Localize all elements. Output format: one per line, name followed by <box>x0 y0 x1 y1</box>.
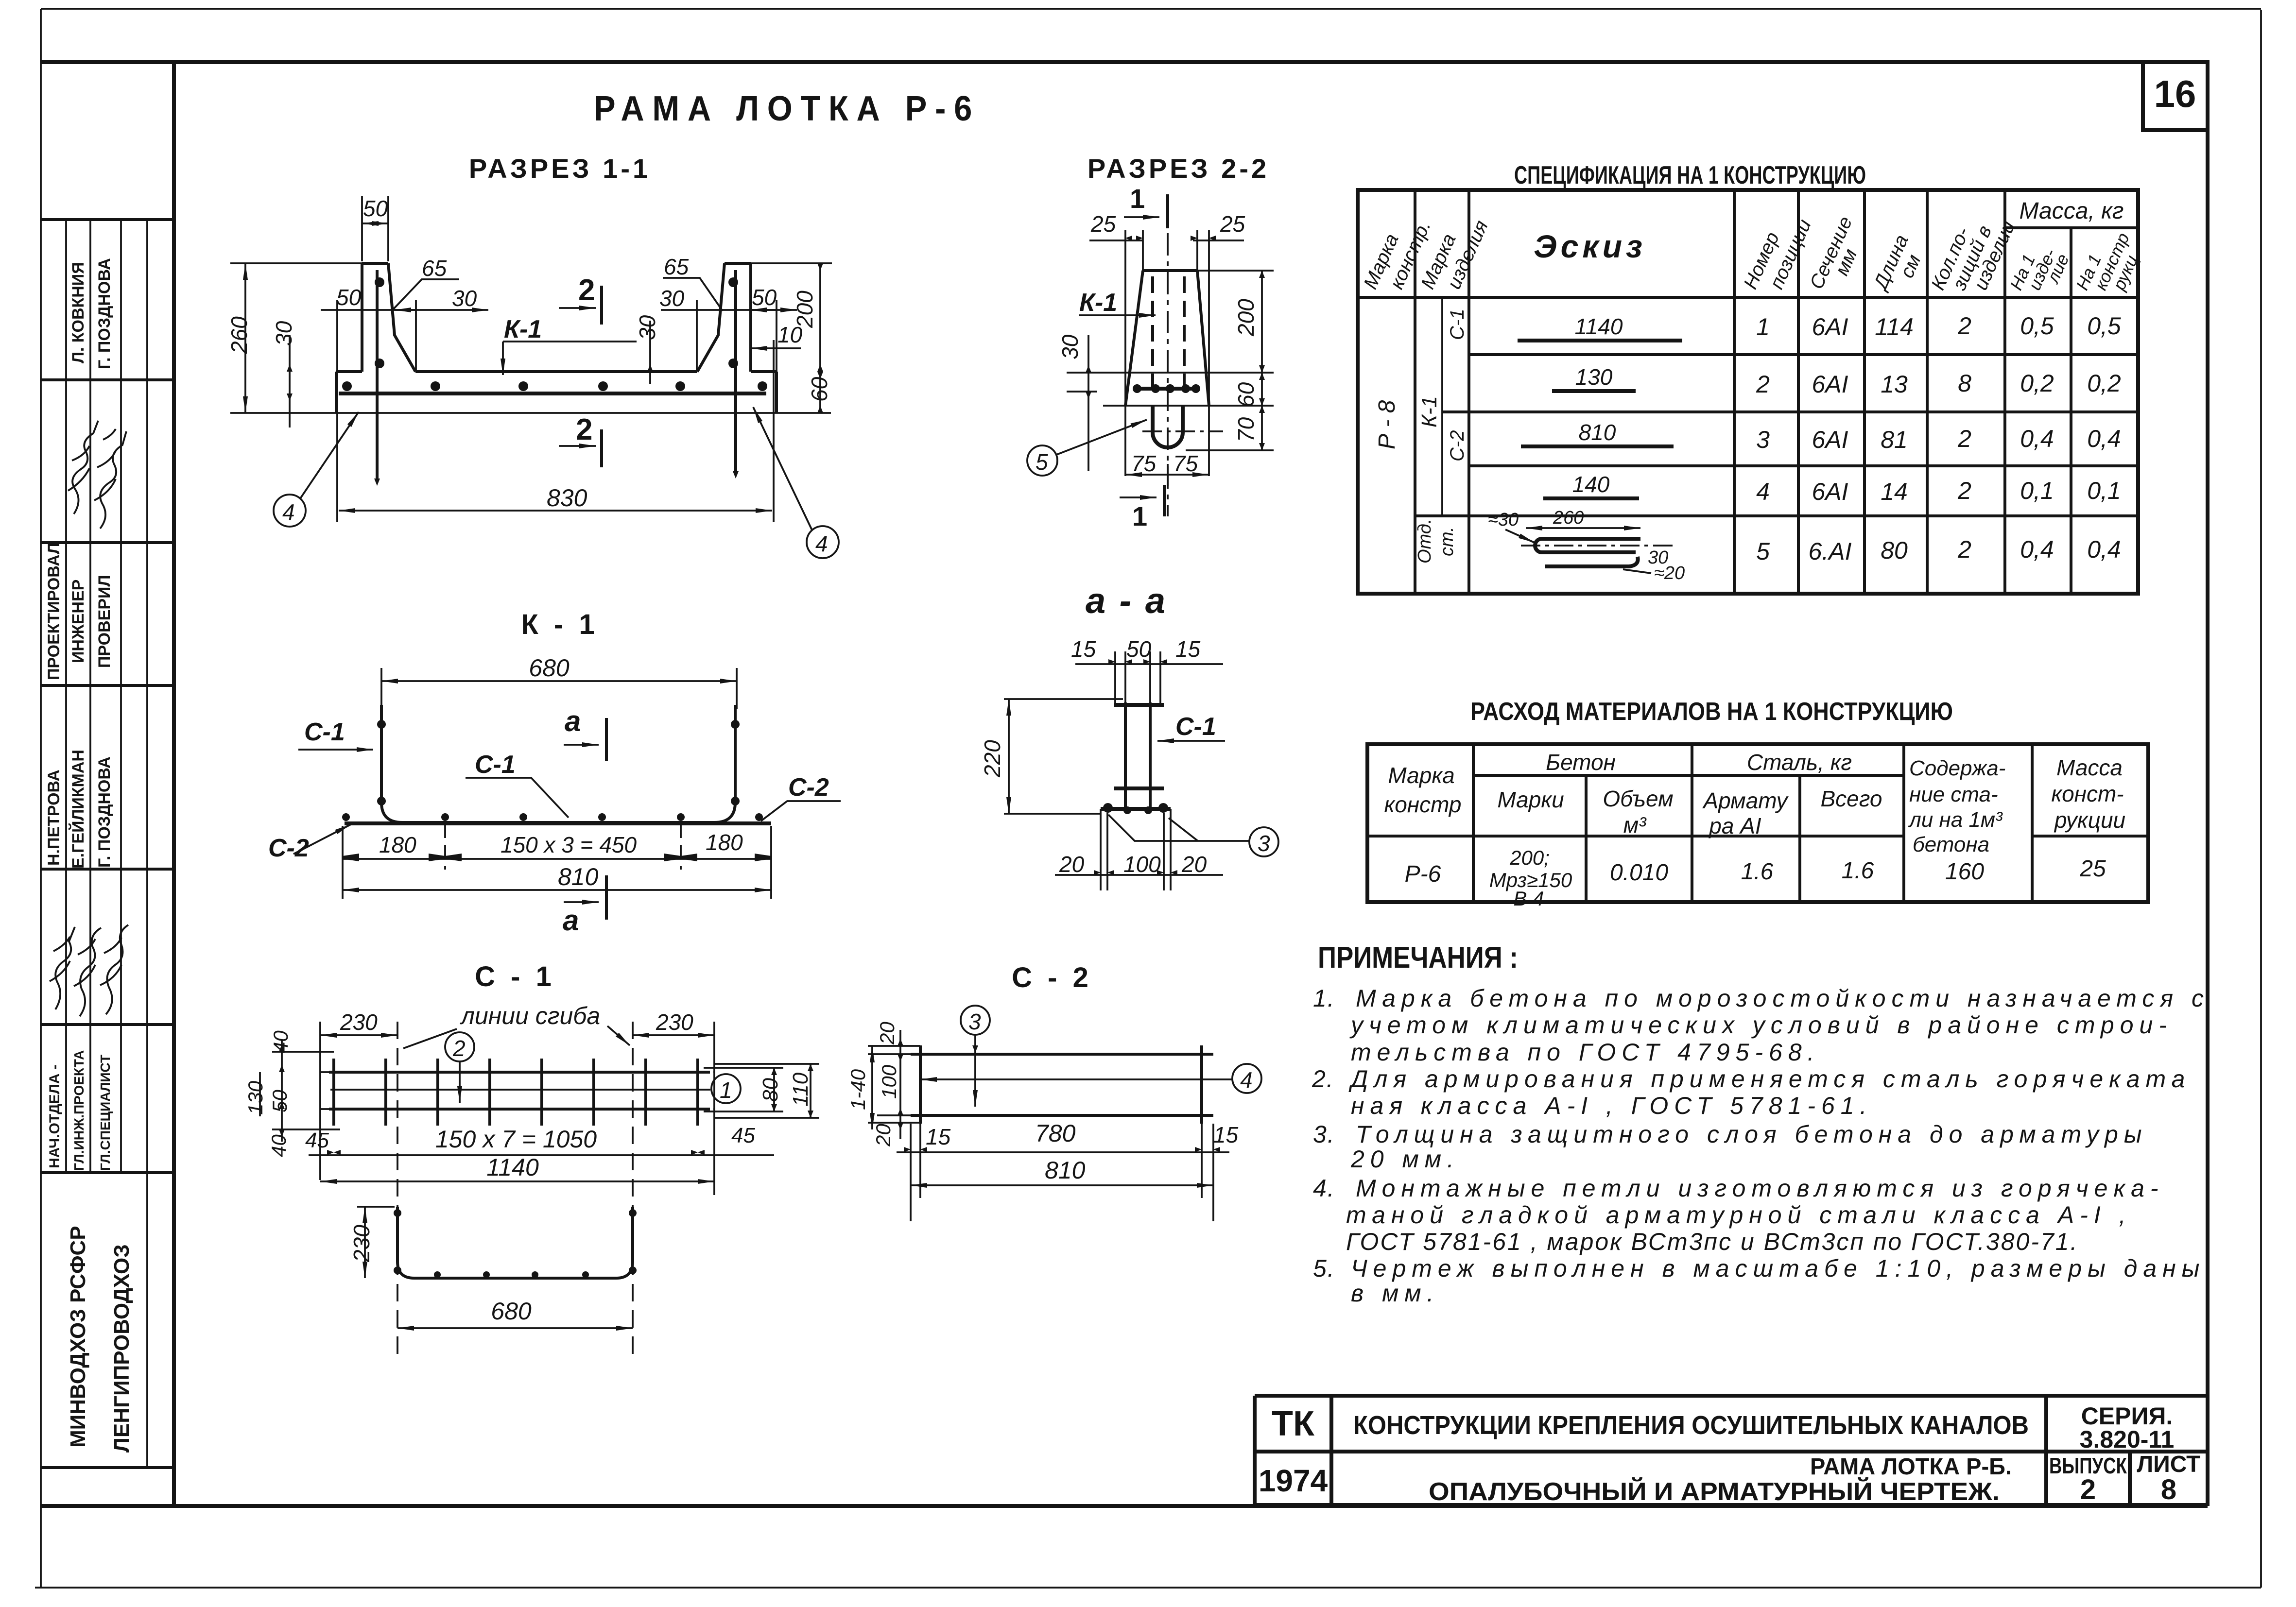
svg-text:80: 80 <box>759 1078 782 1102</box>
svg-text:70: 70 <box>1233 417 1259 442</box>
svg-text:а: а <box>563 904 579 937</box>
K-1 section mark a upper <box>564 705 606 761</box>
svg-text:1: 1 <box>720 1077 732 1103</box>
section 2-2 cut mark 1 bottom <box>1120 485 1164 531</box>
svg-text:15: 15 <box>926 1124 951 1149</box>
svg-text:0,2: 0,2 <box>2020 370 2054 397</box>
svg-text:25: 25 <box>1220 211 1245 237</box>
specification data rows <box>1756 312 2121 565</box>
svg-text:в мм.: в мм. <box>1351 1280 1439 1307</box>
svg-text:30: 30 <box>659 286 685 311</box>
svg-text:РАЗРЕЗ 2-2: РАЗРЕЗ 2-2 <box>1088 153 1269 184</box>
svg-text:15: 15 <box>1213 1122 1239 1147</box>
svg-text:ГОСТ 5781-61 , марок ВСт3пс и: ГОСТ 5781-61 , марок ВСт3пс и ВСт3сп по … <box>1346 1228 2079 1255</box>
svg-text:25: 25 <box>1090 211 1116 237</box>
svg-text:С - 1: С - 1 <box>475 961 555 992</box>
section 2-2 mesh bar with dots <box>1133 384 1200 393</box>
C-2 callout circle 3 <box>961 1006 990 1107</box>
svg-text:ли на 1м³: ли на 1м³ <box>1908 808 2003 832</box>
svg-text:14: 14 <box>1881 478 1908 505</box>
svg-text:15: 15 <box>1175 636 1201 662</box>
svg-text:1: 1 <box>1130 183 1145 214</box>
svg-text:110: 110 <box>789 1072 812 1107</box>
svg-text:Р-6: Р-6 <box>1405 861 1441 887</box>
svg-text:РАЗРЕЗ 1-1: РАЗРЕЗ 1-1 <box>469 153 651 184</box>
section 2-2 dims 25 25 <box>1089 211 1245 476</box>
svg-text:81: 81 <box>1881 426 1908 453</box>
specification header texts <box>1360 198 2144 294</box>
svg-text:Объем: Объем <box>1603 786 1673 811</box>
section 2-2 K-1 label <box>1079 289 1156 317</box>
svg-text:780: 780 <box>1035 1120 1076 1147</box>
notes text <box>1312 985 2210 1307</box>
svg-text:75: 75 <box>1131 451 1157 476</box>
svg-text:6АI: 6АI <box>1812 371 1848 398</box>
svg-text:15: 15 <box>1071 636 1096 662</box>
svg-text:РАМА ЛОТКА Р-6: РАМА ЛОТКА Р-6 <box>594 89 980 128</box>
section 1-1 mesh cross-bar dots <box>342 277 767 391</box>
C-2 left dims 20 100 20 140 <box>846 1022 920 1147</box>
svg-text:ПРИМЕЧАНИЯ :: ПРИМЕЧАНИЯ : <box>1318 941 1518 974</box>
svg-text:Л. КОВКНИЯ: Л. КОВКНИЯ <box>69 262 87 363</box>
svg-text:ЛЕНГИПРОВОДХОЗ: ЛЕНГИПРОВОДХОЗ <box>110 1244 134 1453</box>
svg-text:К - 1: К - 1 <box>521 609 598 640</box>
section 2-2 cut mark 1 top <box>1124 183 1168 228</box>
svg-text:40: 40 <box>267 1134 290 1157</box>
svg-text:6АI: 6АI <box>1812 313 1848 341</box>
svg-text:20: 20 <box>876 1022 898 1045</box>
C-2 mesh <box>911 1045 1232 1124</box>
svg-text:СПЕЦИФИКАЦИЯ НА 1 КОНСТРУКЦИЮ: СПЕЦИФИКАЦИЯ НА 1 КОНСТРУКЦИЮ <box>1514 161 1866 189</box>
svg-text:К-1: К-1 <box>1417 396 1441 427</box>
svg-text:ние ста-: ние ста- <box>1909 783 1998 806</box>
section 2-2 dims 75 75 <box>1125 451 1209 486</box>
svg-text:тельства по ГОСТ 4795-68.: тельства по ГОСТ 4795-68. <box>1351 1039 1820 1066</box>
svg-text:3.820-11: 3.820-11 <box>2080 1426 2175 1453</box>
svg-text:810: 810 <box>1045 1157 1086 1184</box>
K-1 dim 810 <box>343 863 771 890</box>
svg-text:Сталь, кг: Сталь, кг <box>1747 750 1852 775</box>
svg-text:30: 30 <box>452 286 477 311</box>
section 2-2 dim 30 left <box>1057 334 1097 471</box>
K-1 label C-2 far left <box>268 824 351 862</box>
svg-text:Масса, кг: Масса, кг <box>2020 198 2124 224</box>
materials table header texts <box>1384 750 2125 838</box>
svg-text:МИНВОДХОЗ РСФСР: МИНВОДХОЗ РСФСР <box>66 1226 90 1448</box>
C-1 callout circle 1 <box>711 1074 741 1103</box>
svg-text:ГЛ.ИНЖ.ПРОЕКТА: ГЛ.ИНЖ.ПРОЕКТА <box>71 1050 86 1171</box>
C-1 fold dashed lines <box>397 1022 633 1355</box>
svg-text:5: 5 <box>1036 449 1048 475</box>
svg-text:Н.ПЕТРОВА: Н.ПЕТРОВА <box>45 769 63 866</box>
svg-text:0,1: 0,1 <box>2020 477 2054 504</box>
svg-text:230: 230 <box>349 1225 374 1263</box>
svg-text:30: 30 <box>635 315 660 340</box>
svg-text:ст.: ст. <box>1437 527 1457 556</box>
callout circle 4 left <box>274 412 359 527</box>
svg-text:114: 114 <box>1875 313 1914 341</box>
svg-text:3: 3 <box>968 1009 981 1034</box>
svg-text:ра АI: ра АI <box>1708 813 1761 838</box>
svg-text:НАЧ.ОТДЕЛА -: НАЧ.ОТДЕЛА - <box>47 1064 63 1168</box>
specification row labels left <box>1374 309 1468 564</box>
svg-text:50: 50 <box>363 196 388 221</box>
svg-text:4: 4 <box>1756 478 1770 505</box>
svg-text:линии сгиба: линии сгиба <box>460 1002 600 1029</box>
C-1 right dims 80 110 140 <box>704 1064 819 1118</box>
svg-text:65: 65 <box>422 256 447 281</box>
svg-text:200: 200 <box>792 291 817 328</box>
svg-text:0.010: 0.010 <box>1610 860 1668 886</box>
stamp names L.Kovkina / G.Pozdnova <box>69 258 114 369</box>
svg-text:Чертеж выполнен в масштабе 1:1: Чертеж выполнен в масштабе 1:10, размеры… <box>1351 1255 2205 1282</box>
svg-text:4: 4 <box>1240 1067 1253 1093</box>
svg-text:810: 810 <box>1579 420 1616 445</box>
specification sketches rows 1-4 <box>1518 314 1682 498</box>
svg-text:0,2: 0,2 <box>2087 370 2121 397</box>
C-1 callout circle 2 <box>445 1032 474 1103</box>
svg-text:1.: 1. <box>1313 985 1335 1012</box>
stamp names N.Petrova / E.Geylikman / G.Pozdnova <box>45 750 114 869</box>
svg-text:Эскиз: Эскиз <box>1534 228 1646 264</box>
svg-text:учетом климатических условий в: учетом климатических условий в районе ст… <box>1349 1011 2173 1039</box>
svg-text:2: 2 <box>1756 371 1770 398</box>
svg-text:Содержа-: Содержа- <box>1909 756 2005 780</box>
svg-text:Марка: Марка <box>1388 763 1454 788</box>
svg-text:ТК: ТК <box>1272 1404 1315 1443</box>
section 2-2 slab lines <box>1067 373 1274 406</box>
svg-text:2: 2 <box>578 274 595 307</box>
svg-text:м³: м³ <box>1623 812 1647 838</box>
svg-text:220: 220 <box>980 740 1005 778</box>
svg-text:200;: 200; <box>1509 846 1550 869</box>
svg-text:ГЛ.СПЕЦИАЛИСТ: ГЛ.СПЕЦИАЛИСТ <box>98 1055 113 1171</box>
svg-text:а: а <box>565 705 581 737</box>
section 2-2 right dim column 200 60 70 <box>1186 271 1274 450</box>
svg-text:100: 100 <box>1123 852 1161 877</box>
svg-text:20: 20 <box>1181 852 1207 877</box>
svg-text:60: 60 <box>807 376 832 402</box>
svg-text:С-2: С-2 <box>788 773 829 802</box>
svg-text:5: 5 <box>1756 538 1770 565</box>
section 2-2 callout circle 5 <box>1027 420 1147 476</box>
svg-text:130: 130 <box>1575 364 1613 390</box>
svg-text:20 мм.: 20 мм. <box>1350 1145 1460 1173</box>
C-1 bend dim 230 <box>349 1207 395 1278</box>
C-1 bend dim 680 <box>397 1298 633 1328</box>
svg-text:Марки: Марки <box>1497 787 1564 812</box>
svg-text:40: 40 <box>269 1030 292 1053</box>
svg-text:Е.ГЕЙЛИКМАН: Е.ГЕЙЛИКМАН <box>69 750 87 869</box>
section 1-1 channel outline <box>230 263 831 413</box>
svg-text:680: 680 <box>491 1298 532 1325</box>
dim 50 right ledge <box>750 285 777 522</box>
materials table grid <box>1367 744 2148 902</box>
C-1 left dims 40 130 50 40 <box>244 1030 340 1157</box>
svg-text:0,4: 0,4 <box>2020 425 2054 452</box>
section 2-2 mounting loop pos 5 <box>1153 406 1183 447</box>
svg-text:КОНСТРУКЦИИ КРЕПЛЕНИЯ ОСУШИТЕЛ: КОНСТРУКЦИИ КРЕПЛЕНИЯ ОСУШИТЕЛЬНЫХ КАНАЛ… <box>1353 1411 2029 1440</box>
svg-text:20: 20 <box>872 1124 895 1147</box>
C-2 dim 810 <box>911 1157 1213 1185</box>
dim 10 right <box>751 322 803 348</box>
svg-text:50: 50 <box>336 285 362 310</box>
svg-text:К-1: К-1 <box>504 315 542 343</box>
svg-text:230: 230 <box>656 1009 693 1035</box>
stamp roles Proektiroval / Inzhener / Proveril <box>45 543 114 680</box>
svg-text:0,4: 0,4 <box>2087 536 2121 563</box>
svg-text:6АI: 6АI <box>1812 426 1848 453</box>
svg-text:С-1: С-1 <box>475 751 516 779</box>
svg-text:45: 45 <box>731 1124 755 1147</box>
svg-text:5.: 5. <box>1313 1255 1335 1282</box>
svg-text:Р - 8: Р - 8 <box>1374 400 1400 449</box>
svg-text:констр: констр <box>1384 792 1461 817</box>
svg-text:150 x 3 = 450: 150 x 3 = 450 <box>501 832 637 857</box>
section 1-1 top reference lines <box>230 262 832 264</box>
svg-text:2: 2 <box>452 1036 466 1061</box>
svg-text:таной гладкой арматурной стали: таной гладкой арматурной стали класса А-… <box>1346 1201 2132 1229</box>
svg-text:810: 810 <box>558 863 599 890</box>
svg-text:ПРОВЕРИЛ: ПРОВЕРИЛ <box>95 575 114 668</box>
svg-text:К-1: К-1 <box>1079 289 1117 317</box>
svg-text:180: 180 <box>706 830 743 855</box>
svg-text:150 x 7 = 1050: 150 x 7 = 1050 <box>435 1126 597 1153</box>
svg-text:230: 230 <box>340 1009 378 1035</box>
svg-text:16: 16 <box>2154 72 2196 115</box>
svg-text:260: 260 <box>1553 508 1584 528</box>
svg-text:≈30: ≈30 <box>1488 510 1519 530</box>
svg-text:80: 80 <box>1881 537 1908 564</box>
svg-text:С-1: С-1 <box>1447 309 1468 340</box>
dim 830 bottom <box>339 484 772 512</box>
svg-text:С-1: С-1 <box>304 718 345 746</box>
K-1 leader label <box>503 315 637 375</box>
svg-text:200: 200 <box>1233 299 1259 337</box>
stamp org Minvodhoz RSFSR / Lengiprovodhoz <box>66 1226 134 1453</box>
a-a pos 3 leader <box>1108 815 1278 856</box>
svg-text:1-40: 1-40 <box>846 1069 869 1110</box>
svg-text:2: 2 <box>1957 477 1971 504</box>
materials table data row <box>1405 846 2106 910</box>
C-2 dims 15 780 15 <box>897 1120 1239 1221</box>
svg-text:С-1: С-1 <box>1175 713 1216 741</box>
svg-text:конст-: конст- <box>2051 781 2123 806</box>
svg-text:Толщина защитного слоя бетона: Толщина защитного слоя бетона до арматур… <box>1356 1121 2148 1148</box>
svg-text:ОПАЛУБОЧНЫЙ И АРМАТУРНЫЙ ЧЕРТЕ: ОПАЛУБОЧНЫЙ И АРМАТУРНЫЙ ЧЕРТЕЖ. <box>1429 1477 2000 1506</box>
svg-text:Бетон: Бетон <box>1546 750 1616 775</box>
svg-text:180: 180 <box>379 832 416 857</box>
svg-text:8: 8 <box>2161 1474 2176 1505</box>
svg-text:Для армирования применяется ст: Для армирования применяется сталь горяче… <box>1348 1065 2191 1093</box>
K-1 label C-1 left <box>298 718 373 750</box>
svg-text:50: 50 <box>1126 636 1152 662</box>
svg-text:1: 1 <box>1132 501 1147 531</box>
C-1 bend view <box>394 1207 637 1278</box>
section 2-2 loop axis dash-dot <box>1142 430 1223 432</box>
svg-text:1974: 1974 <box>1259 1463 1328 1498</box>
svg-text:3: 3 <box>1258 831 1270 856</box>
svg-text:13: 13 <box>1881 371 1908 398</box>
specification table grid <box>1358 190 2138 594</box>
section mark 2 lower <box>559 413 602 467</box>
svg-text:65: 65 <box>664 254 689 279</box>
svg-text:25: 25 <box>2079 856 2106 882</box>
stamp roles Nach.otdela / Gl.inzh.proekta / Gl.specialist <box>47 1050 113 1171</box>
specification sketch row 5 loop <box>1488 508 1685 583</box>
svg-text:6АI: 6АI <box>1812 478 1848 505</box>
svg-text:1: 1 <box>1756 313 1770 341</box>
svg-text:Масса: Масса <box>2056 755 2123 780</box>
section 1-1 wall rebars (pos 2) <box>377 270 736 479</box>
svg-text:60: 60 <box>1233 382 1259 407</box>
sheet title RAMA LOTKA R-6 <box>594 89 980 128</box>
C-2 callout circle 4 <box>1232 1064 1261 1093</box>
K-1 mesh dots <box>342 720 763 821</box>
K-1 section mark a lower <box>563 875 606 937</box>
C-1 flat mesh wires <box>321 1072 714 1109</box>
section 2-2 dashed wall rebars <box>1153 276 1184 389</box>
bottom title block grid <box>1255 1396 2208 1505</box>
dim 30 left inner <box>395 286 477 372</box>
svg-text:8: 8 <box>1958 370 1971 397</box>
svg-text:0,5: 0,5 <box>2020 312 2054 340</box>
svg-text:Г. ПОЗДНОВА: Г. ПОЗДНОВА <box>95 258 114 369</box>
C-1 cross wires <box>334 1059 698 1126</box>
svg-text:1.6: 1.6 <box>1741 859 1774 885</box>
svg-text:ИНЖЕНЕР: ИНЖЕНЕР <box>69 580 87 663</box>
svg-text:0,4: 0,4 <box>2087 425 2121 452</box>
svg-text:Армату: Армату <box>1702 788 1789 813</box>
C-1 dim 230 left <box>320 1009 397 1180</box>
section 2-2 centre axis <box>1167 194 1169 516</box>
C-1 dim 150x7=1050 and 45 45 <box>305 1124 774 1155</box>
left stamp column grid <box>41 220 174 1468</box>
svg-text:130: 130 <box>244 1080 267 1115</box>
svg-text:РАСХОД МАТЕРИАЛОВ НА 1 КОНСТ: РАСХОД МАТЕРИАЛОВ НА 1 КОНСТРУКЦИЮ <box>1470 698 1953 726</box>
svg-text:6.АI: 6.АI <box>1809 538 1852 565</box>
stamp signatures lower <box>50 925 128 1016</box>
a-a dims 15 50 15 <box>1071 636 1223 705</box>
svg-text:0,5: 0,5 <box>2087 312 2121 340</box>
svg-text:В 4: В 4 <box>1513 887 1544 910</box>
svg-text:С-2: С-2 <box>1447 430 1468 462</box>
dim 50 top of left wall <box>362 196 388 261</box>
svg-text:2: 2 <box>576 413 592 446</box>
svg-text:а - а: а - а <box>1086 581 1167 621</box>
C-1 dim 230 right <box>633 1009 714 1195</box>
svg-text:ПРОЕКТИРОВАЛ: ПРОЕКТИРОВАЛ <box>45 543 63 680</box>
svg-text:4: 4 <box>815 531 828 556</box>
svg-text:2.: 2. <box>1312 1065 1334 1093</box>
svg-text:0,1: 0,1 <box>2087 477 2121 504</box>
svg-text:50: 50 <box>268 1090 291 1112</box>
svg-text:830: 830 <box>547 484 587 512</box>
title block texts <box>1259 1402 2201 1506</box>
a-a footing <box>1101 803 1171 890</box>
svg-text:2: 2 <box>2080 1474 2096 1505</box>
svg-text:100: 100 <box>878 1064 900 1099</box>
a-a dims 20 100 20 <box>1055 852 1223 877</box>
svg-text:45: 45 <box>305 1128 329 1152</box>
a-a label C-1 <box>1157 713 1225 741</box>
K-1 label C-1 middle <box>466 751 569 818</box>
K-1 label C-2 right <box>761 773 841 821</box>
stamp signatures upper <box>68 421 126 529</box>
svg-text:50: 50 <box>752 285 777 310</box>
C-1 dim 1140 <box>320 1154 714 1181</box>
svg-text:30: 30 <box>271 321 296 346</box>
callout circle 4 right <box>753 407 839 558</box>
section 2-2 wall trapezoid <box>1125 271 1209 406</box>
a-a column <box>1114 702 1164 809</box>
svg-text:1140: 1140 <box>1575 314 1623 339</box>
dim 65 left leader <box>392 256 459 311</box>
svg-text:рукции: рукции <box>2054 807 2125 833</box>
svg-text:160: 160 <box>1945 859 1984 885</box>
svg-text:Всего: Всего <box>1820 786 1882 811</box>
svg-text:бетона: бетона <box>1913 833 1989 856</box>
svg-text:20: 20 <box>1059 852 1085 877</box>
svg-text:Отд.: Отд. <box>1415 519 1435 564</box>
svg-text:140: 140 <box>1572 472 1610 497</box>
C-1 fold lines label <box>403 1002 630 1048</box>
svg-text:260: 260 <box>226 316 252 354</box>
sheet number box 16 <box>2143 62 2208 130</box>
a-a dim 220 <box>980 699 1123 814</box>
svg-text:3: 3 <box>1756 426 1770 453</box>
svg-text:1.6: 1.6 <box>1842 858 1874 884</box>
svg-text:С - 2: С - 2 <box>1012 962 1092 993</box>
svg-text:75: 75 <box>1173 451 1198 476</box>
dim 65 right leader <box>663 254 723 311</box>
svg-text:≈20: ≈20 <box>1654 563 1685 583</box>
svg-text:30: 30 <box>1057 334 1083 359</box>
svg-text:1140: 1140 <box>486 1154 539 1181</box>
svg-text:2: 2 <box>1957 312 1971 340</box>
section mark 2 upper <box>559 274 602 325</box>
K-1 bent mesh C-1 <box>381 705 735 822</box>
dim 30 left vertical <box>271 321 296 427</box>
svg-text:0,4: 0,4 <box>2020 536 2054 563</box>
svg-text:ная класса А-I , ГОСТ 5781-61.: ная класса А-I , ГОСТ 5781-61. <box>1351 1092 1873 1119</box>
K-1 dim 680 <box>381 654 737 709</box>
svg-text:Марка бетона по морозостойкост: Марка бетона по морозостойкости назначае… <box>1356 985 2210 1012</box>
svg-text:Г. ПОЗДНОВА: Г. ПОЗДНОВА <box>95 756 114 868</box>
svg-text:4.: 4. <box>1313 1175 1335 1202</box>
dim 50 ledge left <box>321 285 488 522</box>
svg-text:3.: 3. <box>1313 1121 1335 1148</box>
dim 30 right inner <box>659 286 797 372</box>
svg-text:Монтажные петли изготовляются: Монтажные петли изготовляются из горячек… <box>1356 1175 2164 1202</box>
dim 200 and 60 right <box>792 263 832 413</box>
K-1 flat mesh C-2 <box>345 821 771 825</box>
section 1-1 bottom mesh rebar (pos 3/4) <box>339 392 766 395</box>
svg-text:4: 4 <box>282 499 295 525</box>
dim 30 right vertical <box>612 315 695 384</box>
svg-text:2: 2 <box>1957 536 1971 563</box>
svg-text:680: 680 <box>529 654 570 682</box>
dim 260 left <box>226 263 252 413</box>
svg-text:2: 2 <box>1957 425 1971 452</box>
svg-text:РАМА ЛОТКА Р-Б.: РАМА ЛОТКА Р-Б. <box>1810 1454 2012 1480</box>
K-1 dims 180 450 180 <box>343 823 771 899</box>
